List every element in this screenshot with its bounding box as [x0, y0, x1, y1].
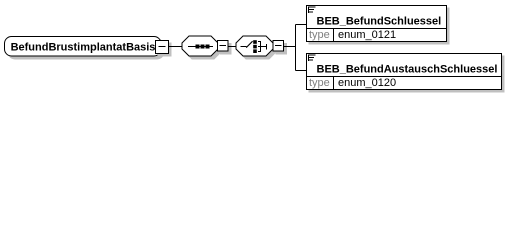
wire element to sequence — [169, 46, 183, 48]
wire sequence to choice — [228, 46, 236, 48]
svg-text:type: type — [309, 77, 330, 89]
sequence compositor — [182, 36, 221, 59]
wire branch to BEB_BefundAustauschSchluessel — [296, 70, 307, 72]
wire choice to branch — [284, 46, 296, 48]
branch vertical wire — [295, 25, 297, 71]
element BEB_BefundAustauschSchluessel — [307, 54, 505, 93]
svg-text:BefundBrustimplantatBasis: BefundBrustimplantatBasis — [11, 42, 156, 54]
svg-text:BEB_BefundAustauschSchluessel: BEB_BefundAustauschSchluessel — [317, 64, 498, 76]
svg-text:type: type — [309, 29, 330, 41]
svg-text:enum_0121: enum_0121 — [338, 29, 396, 41]
type row of BEB_BefundAustauschSchluessel — [309, 77, 396, 90]
icon of BEB_BefundAustauschSchluessel — [309, 55, 316, 62]
expand handle (minus) of BefundBrustimplantatBasis — [156, 41, 172, 57]
wire branch to BEB_BefundSchluessel — [296, 24, 307, 26]
element BEB_BefundSchluessel — [307, 6, 450, 45]
choice compositor — [236, 36, 276, 59]
icon of BEB_BefundSchluessel — [309, 7, 316, 14]
collapse handle (minus) of choice — [273, 41, 287, 55]
svg-text:BEB_BefundSchluessel: BEB_BefundSchluessel — [317, 16, 442, 28]
svg-text:enum_0120: enum_0120 — [338, 77, 396, 89]
type row of BEB_BefundSchluessel — [309, 29, 396, 42]
collapse handle (minus) of sequence — [218, 41, 232, 55]
element BefundBrustimplantatBasis — [5, 37, 165, 60]
